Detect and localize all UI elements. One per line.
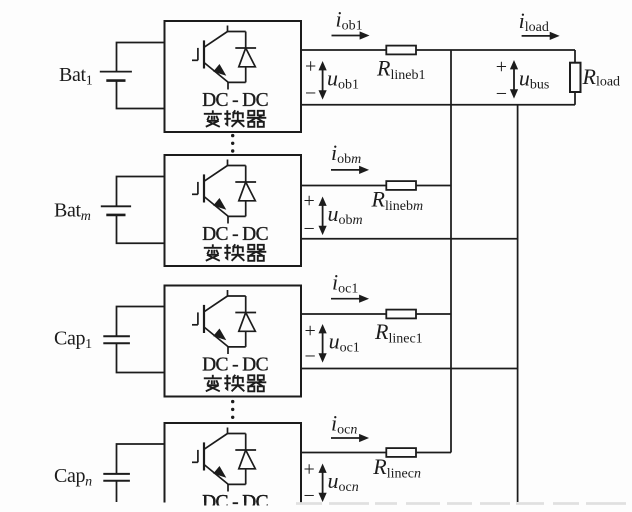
capacitor Cap1 wires <box>117 307 165 337</box>
svg-text:+: + <box>305 320 316 342</box>
faint watermark remnant <box>296 502 632 505</box>
battery Bat1 plates <box>100 71 132 73</box>
bus vertical line 1 <box>450 50 452 453</box>
wire: converter1 top output to resistor <box>301 49 386 51</box>
resistor Rlinec1 <box>386 310 416 319</box>
wire resistor2 to bus line1 <box>416 185 451 187</box>
svg-text:−: − <box>305 346 316 368</box>
wire resistor3 to line1 <box>416 313 451 315</box>
wire converter3 bottom to line2 <box>301 368 518 370</box>
svg-text:+: + <box>305 55 316 77</box>
svg-text:+: + <box>496 56 507 78</box>
bus vertical line 2 <box>517 105 519 502</box>
wire: converter1 bottom output / bottom bus <box>301 104 575 106</box>
wire Rload top <box>574 50 576 63</box>
capacitor Capn wires <box>117 444 165 474</box>
resistor Rlinebm <box>386 181 416 190</box>
svg-text:−: − <box>304 218 315 240</box>
svg-text:−: − <box>496 83 507 105</box>
wire converter2 bottom to line2 <box>301 238 518 240</box>
dots between block3-4 <box>231 400 234 419</box>
wire Rload bottom <box>574 92 576 105</box>
load resistor Rload <box>570 63 581 92</box>
capacitor Cap1 plates <box>103 335 130 337</box>
converter U1 <box>165 21 302 132</box>
u_bus arrow <box>511 61 518 98</box>
capacitor Capn plates <box>103 473 130 475</box>
wire: resistor to bus top <box>416 49 575 51</box>
wire: converter2 top output <box>301 185 386 187</box>
dots between block1-2 <box>231 134 234 153</box>
resistor Rlineb1 <box>386 46 416 55</box>
battery Batm plates <box>101 205 131 207</box>
u_ocn arrow <box>319 465 326 502</box>
i_obm arrow <box>331 166 368 173</box>
u_obm arrow <box>319 198 326 235</box>
u_ob1 arrow <box>319 62 326 99</box>
i_oc1 arrow <box>331 295 368 302</box>
svg-text:−: − <box>305 83 316 105</box>
wire resistor4 to line1 <box>416 452 451 454</box>
resistor Rlinecn <box>386 448 416 457</box>
wire: converter3 top output <box>301 313 386 315</box>
i_ocn arrow <box>331 435 368 442</box>
svg-text:+: + <box>304 459 315 481</box>
svg-text:+: + <box>304 190 315 212</box>
converter U3 <box>165 286 302 397</box>
svg-text:−: − <box>304 485 315 507</box>
i_load arrow <box>522 32 559 39</box>
i_ob1 arrow <box>332 32 369 39</box>
battery Bat1 wires <box>117 43 165 72</box>
converter U4 (clipped by erased band) <box>165 423 302 512</box>
battery Batm wires <box>117 177 165 207</box>
converter U2 <box>165 155 302 266</box>
u_oc1 arrow <box>319 325 326 362</box>
wire: converter4 top output <box>301 452 386 454</box>
